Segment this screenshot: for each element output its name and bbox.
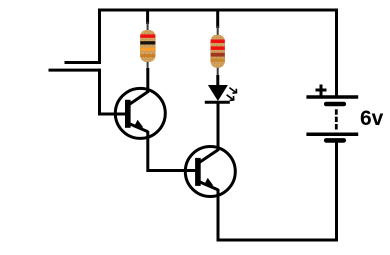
wire: right rail top [335, 9, 338, 98]
resistor R1 [140, 9, 156, 71]
transistor Q1 [115, 88, 165, 138]
wire: Q1 emitter to Q2 base [148, 131, 198, 171]
wire: left drop from top rail [98, 9, 101, 63]
wire: Q2 emitter to bottom rail [217, 189, 220, 242]
switch S1 upper contact [65, 61, 102, 64]
wire: switch to Q1 base [100, 69, 128, 114]
battery BT1 lower plate [306, 133, 358, 137]
wire: bottom rail [217, 239, 339, 242]
wire: top rail [98, 9, 338, 12]
battery BT1 positive plate [306, 95, 358, 99]
svg-text:6v: 6v [360, 107, 384, 130]
battery BT1 plus sign [316, 85, 327, 96]
battery BT1 inner top electrode [326, 102, 344, 107]
switch S1 lower contact [49, 69, 100, 72]
wire: R1 to Q1 collector [146, 68, 149, 93]
resistor R2 [210, 9, 225, 78]
battery BT1 inner bottom electrode [326, 138, 344, 143]
wire: LED to Q2 collector [217, 102, 220, 151]
transistor Q2 [185, 147, 235, 197]
battery BT1 dashed cell link [335, 109, 338, 129]
LED D1 [205, 75, 237, 102]
wire: right rail bottom [335, 141, 338, 241]
